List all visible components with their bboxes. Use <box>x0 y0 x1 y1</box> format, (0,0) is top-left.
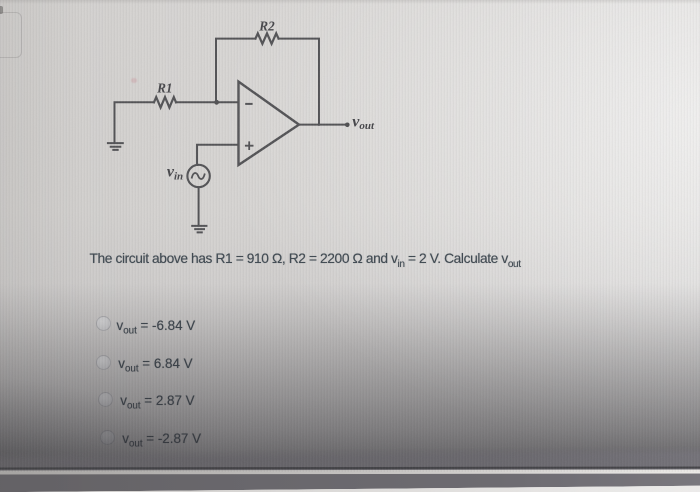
resistor R1 <box>154 97 176 107</box>
wire: R1 right lead into inverting input <box>176 101 239 103</box>
option 3 text <box>120 393 194 412</box>
faint rounded UI edge top-left <box>0 12 22 58</box>
option 2 radio <box>96 355 111 370</box>
pink smudge artifact <box>131 78 137 83</box>
option 4 radio <box>100 430 115 445</box>
bottom dark line <box>0 466 700 469</box>
wire: left ground drop and R1 left lead <box>115 102 155 142</box>
option 2 text <box>118 356 192 375</box>
ground (under vin) <box>192 226 206 233</box>
wire: feedback riser from node A <box>216 39 256 103</box>
option 1 radio <box>96 316 111 331</box>
option 1 text <box>117 318 196 337</box>
bottom light edge strip <box>0 469 700 474</box>
wire: vin to ground <box>198 187 200 225</box>
wire: output lead <box>299 124 347 126</box>
option 4 text <box>122 431 201 450</box>
question text <box>90 251 521 270</box>
op-amp plus pin label <box>246 142 253 149</box>
op-amp U1 <box>239 82 300 165</box>
option 3 radio <box>98 392 113 407</box>
ground (left) <box>108 143 123 150</box>
bottom dark bar <box>0 445 700 492</box>
dark nick at extreme top-left edge <box>0 6 3 14</box>
node A junction dot <box>214 100 219 105</box>
op-amp minus pin label <box>246 103 251 105</box>
wire: R2 right lead and feedback drop to output <box>279 39 320 125</box>
source vin <box>187 165 209 187</box>
resistor R2 <box>256 33 279 43</box>
node vout terminal dot <box>345 123 350 128</box>
wire: non-inverting input lead <box>197 145 239 165</box>
